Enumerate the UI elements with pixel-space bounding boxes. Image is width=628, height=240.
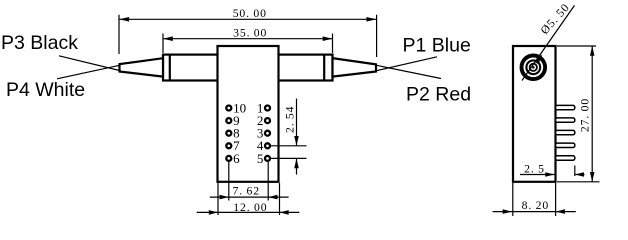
diameter leader line	[522, 5, 575, 80]
leader line P2	[376, 65, 441, 78]
fiber port middle ring	[526, 60, 540, 74]
pin hole 2	[265, 118, 270, 123]
pin hole 9	[226, 118, 231, 123]
dim 8.20 extension left	[512, 183, 514, 216]
left collimator sleeve line	[169, 55, 171, 81]
pin hole 10	[226, 106, 231, 111]
right fiber boot cone	[333, 58, 377, 76]
arrow 12.00 left	[209, 210, 218, 215]
arrow 2.5 right	[575, 172, 584, 177]
svg-text:12.00: 12.00	[233, 201, 267, 214]
arrow 2.54 lower	[294, 158, 299, 168]
arrow 50.00 left	[119, 17, 129, 22]
pin hole 7	[226, 143, 231, 148]
dim 50.00 left extension	[118, 15, 120, 54]
arrow 2.5 left	[545, 172, 554, 177]
dim 7.62 extension pin5	[267, 162, 269, 201]
dim 27.00 top extension	[557, 45, 596, 47]
dim 2.54 line lower	[296, 158, 298, 174]
svg-text:50.00: 50.00	[233, 7, 267, 20]
dim 27.00 bottom extension	[557, 181, 600, 183]
side pin 4	[556, 143, 575, 147]
side pin 1	[556, 105, 575, 109]
arrow 35.00 left	[163, 36, 173, 41]
dim 2.5 line left	[520, 174, 555, 176]
dim 12.00 line	[197, 211, 300, 213]
dim 2.54 leader pin4	[271, 145, 307, 147]
dim 12.00 extension right	[279, 183, 281, 215]
arrow 7.62 left	[220, 195, 229, 200]
dim 8.20 line	[493, 211, 576, 213]
dim 7.62 line	[210, 196, 289, 198]
switch body (front view)	[218, 46, 279, 182]
dim 7.62 extension pin6	[228, 162, 230, 201]
dim 2.5 line right	[575, 174, 585, 176]
svg-text:P4 White: P4 White	[6, 79, 85, 101]
arrow 27.00 top	[590, 46, 595, 56]
svg-text:35.00: 35.00	[233, 26, 267, 39]
main tube (front view)	[163, 55, 333, 81]
dim 12.00 extension left	[217, 183, 219, 215]
dim 35.00 right extension	[332, 34, 334, 54]
arrow 8.20 left	[503, 209, 512, 214]
svg-text:6: 6	[233, 151, 240, 166]
pin hole 1	[265, 106, 270, 111]
leader line P4	[57, 65, 120, 79]
right collimator sleeve line	[323, 55, 325, 81]
svg-text:5: 5	[257, 151, 264, 166]
arrow 35.00 right	[323, 36, 333, 41]
dim 2.54 line upper	[296, 99, 298, 146]
side pin 2	[556, 118, 575, 122]
dim 8.20 extension right	[555, 183, 557, 216]
dim 35.00 line	[163, 38, 333, 40]
arrow 12.00 right	[280, 210, 289, 215]
dim 35.00 left extension	[162, 34, 164, 54]
svg-text:P1 Blue: P1 Blue	[403, 35, 471, 57]
pin hole 3	[265, 131, 270, 136]
svg-text:2.5: 2.5	[524, 162, 545, 175]
svg-text:P3 Black: P3 Black	[1, 32, 78, 54]
dim 50.00 line	[119, 18, 376, 20]
arrow 7.62 right	[268, 195, 277, 200]
fiber core dot	[532, 66, 535, 69]
fiber port inner ring	[530, 64, 537, 71]
pin hole 4	[265, 143, 270, 148]
arrow 27.00 bottom	[590, 172, 595, 182]
arrow diameter leader	[534, 54, 542, 64]
side pin 3	[556, 130, 575, 134]
arrow 2.54 upper	[294, 136, 299, 146]
arrow 8.20 right	[556, 209, 565, 214]
pin hole 5	[265, 156, 270, 161]
left fiber boot cone	[120, 58, 164, 76]
svg-text:7.62: 7.62	[233, 185, 260, 198]
dim 2.54 leader pin5	[271, 157, 307, 159]
svg-text:27.00: 27.00	[579, 98, 592, 132]
leader line P1	[376, 57, 437, 71]
arrow 50.00 right	[367, 17, 377, 22]
leader line P3	[59, 56, 120, 71]
svg-text:2.54: 2.54	[284, 106, 297, 133]
svg-text:P2 Red: P2 Red	[406, 84, 471, 106]
dim 2.5 pin-end extension tick	[574, 166, 576, 177]
side pin 5	[556, 156, 575, 160]
dim 50.00 right extension	[376, 15, 378, 57]
fiber port outer ring	[522, 56, 546, 80]
pin hole 8	[226, 131, 231, 136]
dim 27.00 line	[591, 46, 593, 182]
svg-text:8.20: 8.20	[522, 199, 549, 212]
side view body	[513, 46, 556, 182]
pin hole 6	[226, 156, 231, 161]
